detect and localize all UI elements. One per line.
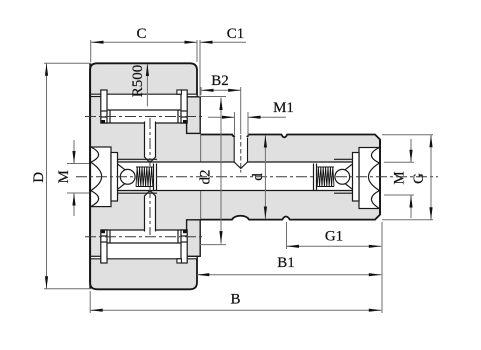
oil hole centerline top — [149, 118, 151, 166]
stud core band lower — [91, 191, 201, 231]
dim B — [90, 222, 382, 313]
grease fitting right — [314, 153, 360, 202]
side plate top-left — [101, 90, 107, 123]
needle centerline top — [85, 116, 202, 118]
plate joint lines top — [101, 110, 107, 112]
top recess line — [91, 93, 197, 95]
needle ticks bottom — [109, 230, 111, 243]
roller bore line top — [107, 109, 181, 111]
grease fitting left — [111, 153, 157, 202]
thread right — [317, 167, 334, 187]
counterbore lines right — [334, 158, 359, 160]
bore line bottom — [91, 190, 380, 192]
side plate bottom-right — [181, 230, 187, 263]
seal bottom-left — [101, 230, 105, 233]
svg-text:d2: d2 — [198, 170, 214, 185]
hex socket left — [90, 147, 111, 207]
side plate bottom-right tab — [177, 259, 182, 263]
left face line — [89, 64, 91, 289]
svg-text:d: d — [250, 173, 266, 181]
bottom recess line — [91, 258, 197, 260]
oil hole bottom — [145, 191, 156, 232]
svg-text:C: C — [136, 26, 146, 42]
dim M left — [56, 140, 89, 216]
raceway line top — [101, 122, 187, 124]
dim d — [250, 135, 267, 219]
stud flange upper block — [187, 97, 201, 134]
seal top-right — [183, 120, 187, 123]
stud head upper block — [90, 97, 101, 148]
bottom recess band (white) — [91, 230, 197, 259]
dim G1 — [287, 222, 382, 249]
stud bore band (white) — [91, 162, 380, 191]
hex socket right — [359, 148, 380, 209]
needle ticks top — [109, 110, 111, 123]
svg-text:G: G — [411, 173, 427, 184]
right face line — [379, 140, 381, 215]
svg-text:M1: M1 — [273, 100, 294, 116]
svg-text:B2: B2 — [211, 73, 229, 89]
svg-text:G1: G1 — [325, 229, 343, 245]
side plate bottom-left — [101, 230, 107, 263]
oil hole top — [145, 122, 156, 163]
M1 hole point — [234, 162, 247, 168]
stud core band upper — [91, 123, 201, 162]
dim C1 — [200, 26, 246, 96]
dim B1 — [197, 255, 381, 276]
stud cylinder — [200, 135, 380, 220]
roller bore line bottom — [107, 242, 181, 244]
svg-text:C1: C1 — [227, 26, 245, 42]
svg-text:R500: R500 — [130, 65, 146, 98]
stud flange lower block — [187, 220, 201, 256]
dim M1 — [208, 100, 294, 136]
dim D — [31, 63, 91, 288]
top recess band (white) — [91, 94, 197, 123]
bore line top — [91, 161, 380, 163]
dim B2 — [201, 73, 241, 134]
counterbore lines left — [111, 158, 157, 160]
R500 leader — [130, 64, 149, 107]
M1 hole cavity — [234, 135, 247, 169]
M1 hole walls — [234, 138, 247, 162]
seal top-left — [101, 120, 105, 123]
svg-text:M: M — [392, 171, 408, 184]
dim d2 — [198, 97, 227, 245]
side plate top-right tab — [177, 90, 182, 94]
side plate top-right — [181, 90, 187, 123]
stud head lower block — [90, 207, 101, 257]
oil hole centerline bottom — [149, 187, 151, 235]
svg-text:D: D — [31, 172, 47, 183]
svg-text:B1: B1 — [277, 255, 295, 271]
needle centerline bottom — [85, 236, 202, 238]
roller outer ring — [90, 63, 197, 289]
seal bottom-right — [183, 230, 187, 233]
dim G — [382, 135, 433, 220]
dim M right — [384, 139, 414, 218]
main axis centerline — [76, 176, 438, 178]
svg-text:M: M — [56, 170, 72, 183]
plate joint lines bottom — [101, 241, 107, 243]
dim C — [91, 26, 197, 62]
svg-text:B: B — [230, 292, 240, 308]
raceway line bottom — [101, 229, 187, 231]
M1 hole centerline — [240, 135, 242, 173]
thread left — [136, 167, 153, 187]
